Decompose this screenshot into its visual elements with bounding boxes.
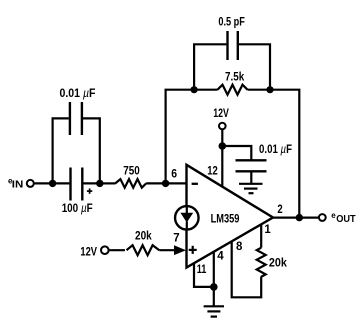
svg-text:6: 6 — [171, 169, 177, 181]
current source symbol of U1 (circle with down arrow) — [175, 206, 199, 230]
value label 7.5k — [225, 72, 245, 84]
wire R1 to node C — [146, 182, 166, 184]
wire node C to U1 inverting input pin 6 — [166, 182, 187, 184]
capacitor C2 100uF plates — [71, 168, 83, 201]
value label 20k — [269, 257, 288, 269]
label eIN — [8, 177, 23, 191]
wire R2 to node E — [248, 89, 271, 91]
wire node A to C2 left plate — [53, 182, 70, 184]
wire U1 pin 4 down to ground node — [213, 252, 215, 287]
junction node E — [266, 86, 273, 93]
node eIN input terminal — [27, 180, 34, 187]
wire eIN to node A — [34, 182, 52, 184]
svg-text:7: 7 — [173, 232, 179, 244]
wire node D up to C3 left plate — [194, 44, 226, 89]
noninverting input plus sign — [189, 246, 197, 254]
label LM359 — [211, 213, 240, 225]
wire node A up to bypass branch top left — [53, 118, 69, 183]
svg-text:0.5 pF: 0.5 pF — [218, 16, 245, 28]
svg-text:12V: 12V — [213, 108, 229, 120]
label 12V — [80, 247, 97, 259]
svg-text:11: 11 — [197, 264, 207, 276]
resistor R1 750 — [115, 179, 146, 188]
pin number 11 — [197, 264, 207, 276]
op-amp U1 LM359 triangle — [187, 165, 274, 268]
junction node D — [191, 86, 198, 93]
junction supply node — [219, 142, 227, 150]
inverting input minus sign — [192, 183, 198, 185]
junction node B — [96, 180, 103, 187]
wire C4 bottom plate to ground — [250, 171, 252, 183]
wire ground node to ground symbol — [213, 287, 215, 306]
wire supply node up to 12V terminal — [221, 130, 223, 146]
resistor R4 20k — [257, 248, 266, 277]
pin number 7 — [173, 232, 179, 244]
resistor R2 7.5k — [218, 85, 248, 95]
wire U1 pin 1 down to R4 — [260, 224, 262, 247]
svg-text:1: 1 — [264, 224, 271, 236]
ground symbol at C4 — [239, 184, 263, 193]
svg-text:8: 8 — [236, 241, 243, 253]
junction ground node — [210, 283, 218, 291]
svg-text:12V: 12V — [80, 247, 97, 259]
svg-text:12: 12 — [207, 165, 218, 177]
wire U1 output pin 2 to node F — [273, 217, 299, 219]
pin number 8 — [236, 241, 243, 253]
capacitor C1 0.01uF plates — [70, 102, 82, 135]
pin number 4 — [217, 250, 224, 262]
svg-text:0.01 µF: 0.01 µF — [259, 144, 292, 156]
arrow into pin 7 — [174, 245, 186, 255]
value label 20k — [135, 231, 152, 243]
svg-text:0.01 µF: 0.01 µF — [60, 88, 96, 100]
wire node E feedback right side down to node F — [270, 90, 299, 218]
label 12V — [213, 108, 229, 120]
svg-text:100 µF: 100 µF — [62, 203, 93, 215]
pin number 6 — [171, 169, 177, 181]
wire feedback riser from node C to node D — [166, 90, 195, 184]
junction node C — [162, 180, 169, 187]
svg-text:20k: 20k — [135, 231, 152, 243]
value label 0.01 uF — [60, 88, 96, 100]
label + polarity of C2 — [87, 188, 92, 193]
wire node B to R1 — [100, 182, 116, 184]
junction node A — [49, 180, 56, 187]
svg-text:LM359: LM359 — [211, 213, 240, 225]
value label 0.01 uF — [259, 144, 292, 156]
wire 12V terminal to R3 — [109, 249, 125, 251]
value label 0.5 pF — [218, 16, 245, 28]
svg-text:OUT: OUT — [336, 214, 355, 225]
svg-text:20k: 20k — [269, 257, 288, 269]
wire C3 right plate down to node E — [239, 44, 270, 89]
pin number 12 — [207, 165, 218, 177]
label eOUT — [331, 211, 355, 225]
wire U1 pin 11 down to ground node — [194, 263, 214, 287]
capacitor C4 0.01uF plates — [236, 160, 267, 171]
svg-text:4: 4 — [217, 250, 224, 262]
wire C2 right plate to node B — [83, 182, 99, 184]
node 12V bias terminal — [101, 246, 109, 254]
value label 100 uF — [62, 203, 93, 215]
wire node D to R2 — [194, 89, 217, 91]
pin number 1 — [264, 224, 271, 236]
wire U1 pin 12 to supply node — [221, 146, 223, 187]
wire R4 bottom to U1 pin 8 — [232, 242, 262, 298]
junction node F — [296, 214, 303, 221]
wire bypass branch top right down to node B — [83, 118, 100, 183]
node 12V supply terminal — [219, 123, 226, 130]
capacitor C3 0.5pF plates — [228, 31, 238, 60]
resistor R3 20k — [127, 245, 160, 255]
wire node F to eOUT terminal — [299, 217, 318, 219]
svg-text:7.5k: 7.5k — [225, 72, 245, 84]
value label 750 — [123, 166, 140, 178]
svg-text:750: 750 — [123, 166, 140, 178]
wire supply node to C4 top plate — [222, 146, 251, 160]
pin number 2 — [277, 204, 282, 216]
svg-text:2: 2 — [277, 204, 282, 216]
ground symbol at U1 — [204, 306, 224, 316]
wire R3 to U1 pin 7 arrow — [159, 249, 176, 251]
svg-text:IN: IN — [12, 179, 23, 190]
node eOUT output terminal — [319, 214, 326, 221]
